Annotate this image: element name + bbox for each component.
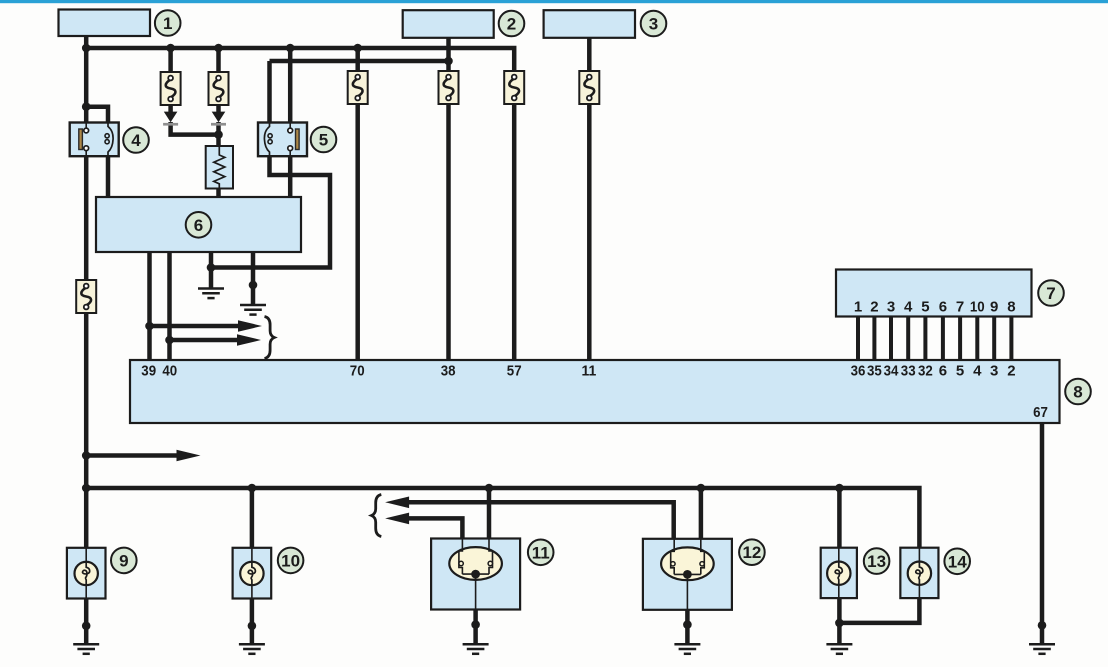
- svg-text:6: 6: [194, 216, 203, 235]
- svg-text:8: 8: [1073, 383, 1082, 402]
- svg-text:32: 32: [918, 363, 933, 380]
- svg-text:67: 67: [1033, 404, 1048, 421]
- svg-text:38: 38: [441, 363, 456, 380]
- svg-text:3: 3: [990, 363, 998, 380]
- svg-text:9: 9: [119, 551, 128, 570]
- svg-text:10: 10: [281, 551, 300, 570]
- svg-text:5: 5: [956, 363, 964, 380]
- svg-text:5: 5: [921, 299, 929, 316]
- svg-text:9: 9: [990, 299, 998, 316]
- svg-text:39: 39: [141, 363, 156, 380]
- svg-text:33: 33: [901, 363, 916, 380]
- svg-text:10: 10: [970, 299, 985, 316]
- svg-text:8: 8: [1007, 299, 1015, 316]
- svg-text:6: 6: [939, 299, 947, 316]
- svg-text:12: 12: [742, 543, 761, 562]
- svg-text:3: 3: [649, 15, 658, 34]
- svg-text:7: 7: [1046, 284, 1055, 303]
- svg-text:4: 4: [131, 131, 141, 150]
- svg-text:57: 57: [507, 363, 522, 380]
- svg-text:34: 34: [884, 363, 899, 380]
- svg-text:4: 4: [904, 299, 913, 316]
- svg-text:11: 11: [532, 543, 550, 562]
- svg-text:70: 70: [350, 363, 365, 380]
- svg-text:4: 4: [973, 363, 982, 380]
- svg-text:2: 2: [870, 299, 878, 316]
- svg-text:1: 1: [854, 299, 862, 316]
- svg-text:6: 6: [939, 363, 947, 380]
- svg-text:14: 14: [948, 552, 967, 571]
- svg-text:2: 2: [507, 15, 516, 34]
- svg-text:36: 36: [851, 363, 866, 380]
- svg-text:11: 11: [582, 363, 597, 380]
- svg-text:3: 3: [887, 299, 895, 316]
- svg-text:35: 35: [867, 363, 882, 380]
- svg-text:1: 1: [163, 14, 172, 33]
- svg-text:40: 40: [162, 363, 177, 380]
- svg-text:2: 2: [1007, 363, 1015, 380]
- svg-text:13: 13: [867, 552, 886, 571]
- svg-text:7: 7: [956, 299, 964, 316]
- svg-text:5: 5: [319, 131, 328, 150]
